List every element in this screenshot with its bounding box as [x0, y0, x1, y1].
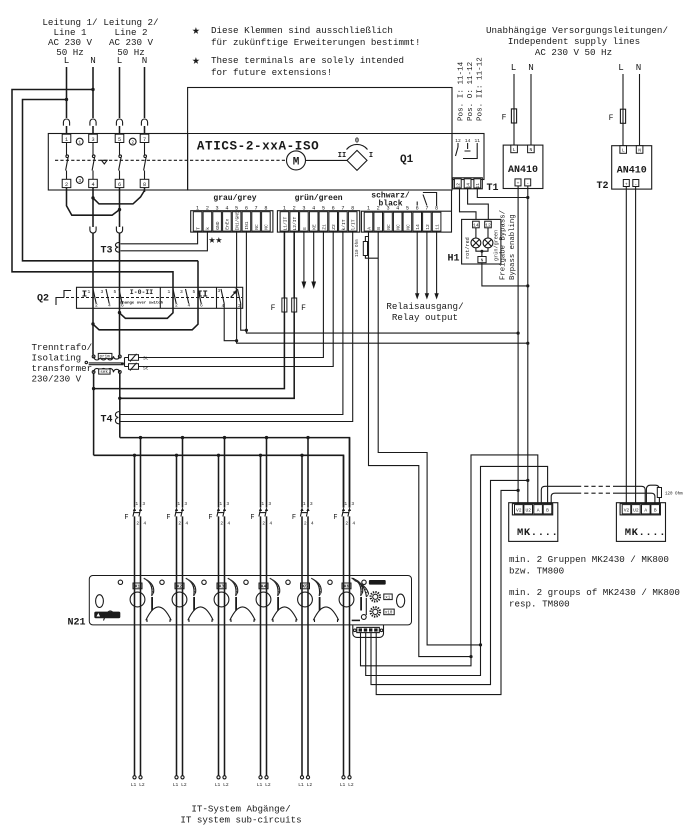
- wire bus A to MK2 A: [615, 486, 645, 503]
- wire sub-circuit 3 through K3: [219, 575, 225, 776]
- svg-text:AC 230 V 50 Hz: AC 230 V 50 Hz: [535, 47, 612, 58]
- wire gruen k/IT to T4: [121, 231, 343, 414]
- node circled 1: [76, 138, 83, 145]
- svg-text:L1: L1: [131, 782, 137, 788]
- svg-text:E: E: [302, 227, 308, 230]
- contact blade pole 7: [144, 143, 147, 180]
- wire T2 N: [639, 74, 641, 146]
- svg-text:1: 1: [219, 501, 222, 507]
- svg-text:4: 4: [225, 206, 228, 212]
- svg-text:6: 6: [332, 206, 335, 212]
- wire sek right down with tap: [119, 373, 121, 437]
- Q2 group1 contacts: [88, 289, 125, 309]
- svg-text:H1: H1: [448, 254, 460, 265]
- N21 mounting slot: [96, 595, 104, 608]
- svg-text:3: 3: [268, 501, 271, 507]
- svg-text:rot/red: rot/red: [465, 237, 471, 259]
- connector plug N feed: [116, 227, 122, 234]
- wire N21 pin2 riser: [366, 466, 548, 675]
- svg-text:1: 1: [168, 289, 171, 295]
- wire N21 pin4 riser: [376, 490, 518, 694]
- op-amp Q1 outline (ATICS unit): [188, 88, 452, 191]
- connector plug L feed: [90, 227, 96, 234]
- wire L1 socket to terminal 1: [66, 126, 68, 135]
- svg-text:min. 2 groups of MK2430 / MK80: min. 2 groups of MK2430 / MK800: [509, 587, 680, 598]
- svg-text:prim.: prim.: [100, 355, 113, 360]
- svg-text:für zukünftige Erweiterungen b: für zukünftige Erweiterungen bestimmt!: [211, 37, 421, 48]
- svg-text:3: 3: [184, 501, 187, 507]
- svg-text:NC: NC: [254, 224, 260, 230]
- wire grau6 to plus rail: [246, 231, 518, 333]
- wire grau2 to T3: [121, 231, 208, 251]
- wire MK1 A to bus hook: [541, 486, 577, 503]
- svg-text:L: L: [511, 62, 517, 73]
- fuse F L2/IT: [292, 298, 306, 313]
- svg-text:bzw. TM800: bzw. TM800: [509, 566, 564, 577]
- EDS display area: [352, 578, 405, 620]
- svg-text:4: 4: [396, 206, 399, 212]
- transformer TR1 secondary: [92, 368, 121, 375]
- wire N1 socket to terminal 3: [92, 126, 94, 135]
- svg-text:L: L: [117, 55, 123, 66]
- svg-text:4: 4: [108, 303, 111, 309]
- terminal 5: [115, 134, 124, 143]
- svg-text:Freigabe Bypass/: Freigabe Bypass/: [500, 210, 508, 280]
- svg-text:1: 1: [65, 137, 68, 143]
- wire lamps to N terminal: [476, 248, 488, 257]
- svg-text:I: I: [82, 290, 87, 300]
- breaker F2: [166, 438, 188, 576]
- current transformer K4: [256, 578, 280, 610]
- wire M to selector: [306, 159, 348, 161]
- svg-text:12: 12: [456, 183, 462, 189]
- wire Q2 pole3 to transformer prim right: [119, 287, 121, 355]
- breaker F6: [333, 438, 355, 576]
- current transformer K2: [172, 578, 196, 610]
- bundle Q2 group2 out1 to pole3 wire: [120, 308, 174, 318]
- wire plug to Q2 pole3: [119, 233, 121, 287]
- wire schwarz 11 relay output arrow: [434, 231, 438, 299]
- node Q2 manual actuator: [56, 291, 71, 306]
- bridge terminal 4 to terminal 8: [93, 188, 145, 204]
- svg-text:2: 2: [178, 521, 181, 527]
- svg-text:K5: K5: [302, 585, 308, 590]
- Q2 group3 aux contacts: [218, 287, 242, 309]
- svg-text:sek.: sek.: [100, 370, 110, 375]
- svg-text:T4: T4: [101, 415, 113, 426]
- svg-text:8: 8: [435, 206, 438, 212]
- svg-text:3: 3: [216, 206, 219, 212]
- svg-text:L2: L2: [139, 782, 145, 788]
- wire T2 L with fuse: [622, 74, 624, 146]
- svg-text:120 Ohm: 120 Ohm: [665, 492, 683, 497]
- resistor R term 110 Ohm on A B: [355, 237, 378, 259]
- svg-text:N: N: [528, 62, 534, 73]
- node sub-circuit 6 terminals L1 L2: [340, 776, 354, 788]
- svg-text:K3: K3: [219, 585, 225, 590]
- svg-text:L2: L2: [223, 782, 229, 788]
- wire sub-circuit 5 through K5: [302, 575, 308, 776]
- svg-text:Pos. O: 11-12: Pos. O: 11-12: [467, 61, 475, 121]
- svg-text:5: 5: [193, 289, 196, 295]
- terminal 4: [89, 179, 98, 188]
- svg-text:230/230 V: 230/230 V: [32, 374, 82, 385]
- svg-text:IT system sub-circuits: IT system sub-circuits: [180, 815, 301, 826]
- svg-text:2: 2: [262, 521, 265, 527]
- svg-text:Bypass enabling: Bypass enabling: [509, 214, 517, 280]
- wire L2 down: [119, 67, 121, 118]
- wire Q2 aux col1 to grau5: [224, 304, 236, 341]
- svg-text:AN410: AN410: [508, 165, 538, 176]
- svg-text:F: F: [166, 514, 170, 522]
- switch Q2 changeover box: [77, 287, 243, 308]
- relay contact drawing: [456, 143, 478, 159]
- svg-text:k: k: [205, 227, 211, 230]
- svg-text:NC: NC: [405, 224, 411, 230]
- wire Q2 aux col2 to grau6: [241, 304, 247, 331]
- transformer core: [89, 362, 124, 364]
- wire gruen L2/IT down through fuse: [120, 231, 294, 398]
- svg-text:K1: K1: [135, 585, 141, 590]
- svg-text:★: ★: [192, 53, 200, 68]
- svg-text:F: F: [292, 514, 296, 522]
- wire schwarz 14 relay output arrow: [415, 231, 419, 299]
- connector socket L2: [116, 119, 122, 126]
- svg-text:F: F: [502, 114, 507, 123]
- svg-text:3: 3: [142, 501, 145, 507]
- svg-text:L1: L1: [340, 782, 346, 788]
- svg-text:transformer: transformer: [32, 363, 93, 374]
- N21 Bender logo: [94, 612, 120, 619]
- monitor MK2 box: [616, 503, 666, 542]
- terminal 3: [89, 134, 98, 143]
- terminal strip grau outline: [191, 211, 273, 232]
- wire T2 minus down to MK2: [635, 187, 637, 504]
- svg-text:L1: L1: [257, 782, 263, 788]
- svg-text:2: 2: [220, 521, 223, 527]
- svg-text:Pos. II: 11-12: Pos. II: 11-12: [477, 57, 485, 121]
- breaker F4: [250, 438, 272, 576]
- svg-text:Q1: Q1: [400, 154, 414, 166]
- svg-text:L: L: [513, 147, 516, 153]
- wire L2 socket to terminal 5: [119, 126, 121, 135]
- terminal 2: [62, 179, 71, 188]
- node circled 2: [129, 138, 136, 145]
- svg-text:3: 3: [180, 289, 183, 295]
- svg-text:A: A: [367, 227, 373, 230]
- svg-text:4: 4: [188, 303, 191, 309]
- svg-text:1: 1: [177, 501, 180, 507]
- connector socket L1: [63, 119, 69, 126]
- svg-text:L: L: [64, 55, 70, 66]
- wire gruen Z1 to St1: [139, 231, 324, 357]
- svg-text:U2: U2: [633, 508, 639, 514]
- svg-text:Relaisausgang/: Relaisausgang/: [386, 301, 463, 312]
- svg-text:change over switch: change over switch: [120, 301, 164, 306]
- wire sub-circuit 6 through K6: [344, 575, 350, 776]
- svg-text:F: F: [333, 514, 337, 522]
- svg-text:T1: T1: [487, 183, 499, 194]
- svg-text:MK....: MK....: [625, 527, 666, 539]
- wire N21 pin3 riser: [371, 480, 528, 684]
- wire from terminal 2 down: [67, 188, 120, 216]
- svg-text:4: 4: [312, 206, 315, 212]
- connector socket N2: [141, 119, 147, 126]
- svg-text:3: 3: [101, 289, 104, 295]
- svg-text:IN1/GN5: IN1/GN5: [234, 211, 240, 231]
- svg-text:2: 2: [175, 303, 178, 309]
- wire N2 socket to terminal 7: [144, 126, 146, 135]
- svg-text:AN410: AN410: [617, 166, 647, 177]
- svg-text:L1/IT: L1/IT: [282, 216, 288, 230]
- svg-text:3: 3: [302, 206, 305, 212]
- svg-text:1: 1: [78, 140, 81, 146]
- fuse F T1: [502, 109, 517, 123]
- wire sek left down with tap: [93, 373, 95, 455]
- svg-text:2: 2: [206, 206, 209, 212]
- transformer TR1 primary: [92, 353, 121, 360]
- svg-text:4: 4: [269, 521, 272, 527]
- wire gruen l/IT to T4: [121, 231, 353, 421]
- wire gruen E with arrow: [302, 231, 307, 289]
- svg-text:14: 14: [415, 224, 421, 230]
- node sub-circuit 2 terminals L1 L2: [173, 776, 187, 788]
- svg-text:5: 5: [235, 206, 238, 212]
- node sub-circuit 4 terminals L1 L2: [257, 776, 271, 788]
- svg-text:2: 2: [65, 182, 68, 188]
- wire schwarz A down: [369, 231, 472, 656]
- resistor R 120 Ohm termination: [646, 485, 683, 503]
- svg-text:★★: ★★: [209, 234, 223, 247]
- svg-text:B: B: [376, 227, 382, 230]
- bus L sub-distribution: [120, 438, 350, 508]
- svg-text:6: 6: [245, 206, 248, 212]
- svg-text:2: 2: [136, 521, 139, 527]
- svg-text:x1: x1: [385, 597, 391, 601]
- wire relay 14 to H1: [468, 189, 489, 220]
- svg-text:F: F: [609, 114, 614, 123]
- svg-text:4: 4: [311, 521, 314, 527]
- relay K1 aux box on Q1: [452, 134, 484, 180]
- svg-text:F: F: [250, 514, 254, 522]
- svg-text:K6: K6: [344, 585, 350, 590]
- svg-text:B: B: [654, 508, 657, 514]
- svg-text:grün/green: grün/green: [295, 194, 343, 203]
- svg-text:T: T: [195, 227, 201, 230]
- lamp red: [471, 228, 481, 248]
- svg-text:6: 6: [121, 303, 124, 309]
- svg-text:GND: GND: [215, 221, 221, 230]
- wire relay 12 to H1: [460, 189, 477, 220]
- switch selector diamond: [347, 150, 367, 170]
- svg-text:110 Ohm: 110 Ohm: [355, 239, 360, 257]
- wire gruen KE with arrow: [311, 231, 316, 289]
- wire plug to Q2 pole1: [92, 233, 94, 287]
- svg-text:St: St: [143, 356, 149, 362]
- contact blade pole 1: [66, 143, 69, 180]
- terminal strip gruen outline: [277, 211, 359, 232]
- node selector arc: [347, 144, 368, 149]
- svg-text:1: 1: [283, 206, 286, 212]
- label Pos rotated: [458, 57, 485, 121]
- connector T3: [101, 242, 120, 256]
- svg-text:4: 4: [352, 521, 355, 527]
- svg-text:N: N: [530, 147, 533, 153]
- svg-text:U2: U2: [525, 508, 531, 514]
- svg-text:NC: NC: [386, 224, 392, 230]
- wire mechanical dashed link: [55, 159, 287, 161]
- svg-text:I-0-II: I-0-II: [130, 289, 154, 296]
- node sub-circuit 1 terminals L1 L2: [131, 776, 145, 788]
- bus N sub-distribution: [94, 455, 344, 507]
- terminal 8: [140, 179, 149, 188]
- svg-text:8: 8: [143, 182, 146, 188]
- svg-text:x10: x10: [385, 612, 393, 616]
- wire T1 minus down to MK1: [527, 186, 529, 504]
- svg-text:F: F: [208, 514, 212, 522]
- Q2 group2 contacts: [168, 289, 204, 309]
- wire T1 L with fuse: [513, 74, 515, 145]
- svg-text:NC: NC: [264, 224, 270, 230]
- svg-text:8: 8: [264, 206, 267, 212]
- lamp green: [483, 228, 493, 248]
- svg-text:Independent supply lines: Independent supply lines: [508, 36, 640, 47]
- note star 1 (German): [192, 23, 421, 48]
- svg-text:2: 2: [377, 206, 380, 212]
- node Leitung 2 label: [103, 17, 158, 58]
- wire sub-circuit 1 through K1: [135, 575, 141, 776]
- svg-text:4: 4: [227, 521, 230, 527]
- svg-text:N: N: [142, 55, 148, 66]
- junction rail B / L1: [65, 98, 68, 101]
- svg-text:0: 0: [355, 138, 359, 146]
- svg-text:6: 6: [200, 303, 203, 309]
- svg-text:1: 1: [303, 501, 306, 507]
- svg-text:Unabhängige Versorgungsleitung: Unabhängige Versorgungsleitungen/: [486, 25, 668, 36]
- terminals gruen 1-8: [280, 206, 357, 231]
- wire sub-circuit 4 through K4: [261, 575, 267, 776]
- svg-text:11: 11: [435, 224, 441, 230]
- wire Q2 pole1 to transformer prim left: [92, 287, 94, 355]
- svg-text:A: A: [537, 508, 540, 514]
- svg-text:F: F: [124, 514, 128, 522]
- svg-text:resp. TM800: resp. TM800: [509, 599, 570, 610]
- svg-text:N: N: [636, 62, 642, 73]
- svg-text:★: ★: [192, 23, 200, 38]
- contact blade pole 5: [119, 143, 122, 180]
- svg-text:3: 3: [91, 137, 94, 143]
- connector T4: [101, 412, 120, 426]
- svg-text:1: 1: [344, 501, 347, 507]
- terminal N of H1: [478, 257, 486, 264]
- breaker F1: [124, 438, 146, 576]
- svg-text:II: II: [338, 152, 346, 160]
- fuse F L1/IT: [271, 298, 287, 313]
- power supply T1 AN410: [503, 145, 543, 188]
- svg-text:A: A: [644, 508, 647, 514]
- junction rail A / N1: [91, 88, 94, 91]
- svg-text:4: 4: [185, 521, 188, 527]
- svg-text:EnEx: EnEx: [225, 219, 231, 230]
- wire rail B from L1 to left: [23, 100, 199, 288]
- wire N21 pin1 riser: [361, 455, 538, 666]
- svg-text:2: 2: [293, 206, 296, 212]
- svg-text:14: 14: [465, 183, 471, 189]
- label min 2 Gruppen: [509, 554, 680, 610]
- svg-text:L: L: [622, 148, 625, 154]
- wire from terminal 6 down: [119, 188, 121, 227]
- svg-text:Z1: Z1: [321, 224, 327, 230]
- svg-text:1: 1: [196, 206, 199, 212]
- svg-text:ATICS-2-xxA-ISO: ATICS-2-xxA-ISO: [197, 140, 319, 154]
- svg-text:1: 1: [367, 206, 370, 212]
- switch S1 bypass changeover box: [48, 134, 187, 191]
- svg-text:L2: L2: [181, 782, 187, 788]
- wire T2 plus down to MK2: [625, 187, 627, 504]
- current transformer K5: [298, 578, 322, 610]
- monitor MK1 box: [509, 503, 559, 542]
- note star 2 (English): [192, 53, 404, 78]
- svg-text:F: F: [271, 304, 276, 313]
- svg-text:IN1: IN1: [244, 221, 250, 230]
- wire rail A through Q2: [172, 287, 174, 308]
- wire bus A dashed: [577, 485, 615, 487]
- svg-text:5: 5: [406, 206, 409, 212]
- svg-text:2: 2: [345, 521, 348, 527]
- svg-text:3: 3: [218, 288, 221, 294]
- wire gruen Z2 to St2: [139, 231, 334, 366]
- current transformer K3: [214, 578, 238, 610]
- svg-text:KE: KE: [312, 224, 318, 230]
- svg-text:L1: L1: [173, 782, 179, 788]
- node coupling triangle: [102, 160, 108, 164]
- motor M1: [287, 151, 306, 170]
- svg-text:1: 1: [88, 289, 91, 295]
- node sub-circuit 5 terminals L1 L2: [298, 776, 312, 788]
- svg-text:Diese Klemmen sind ausschließl: Diese Klemmen sind ausschließlich: [211, 25, 393, 36]
- svg-text:11: 11: [475, 183, 481, 189]
- wire N2 down: [144, 67, 146, 118]
- junction dots bus L: [139, 436, 310, 439]
- svg-text:3: 3: [310, 501, 313, 507]
- wire grau1 to T3: [121, 231, 198, 244]
- surge arrester St1: [121, 354, 149, 367]
- terminal 1: [62, 134, 71, 143]
- svg-text:5: 5: [118, 137, 121, 143]
- wire T1 N: [530, 74, 532, 145]
- svg-text:L1: L1: [298, 782, 304, 788]
- monitor N21 module outline: [89, 576, 411, 625]
- terminals schwarz 1-8: [364, 206, 441, 231]
- svg-text:EDS460: EDS460: [370, 582, 383, 586]
- svg-text:50 Hz: 50 Hz: [56, 47, 84, 58]
- terminal 7: [140, 134, 149, 143]
- svg-text:for future extensions!: for future extensions!: [211, 67, 332, 78]
- fuse F T2: [609, 109, 626, 123]
- svg-text:Relay output: Relay output: [392, 312, 458, 323]
- node Leitung 1 label: [42, 17, 97, 58]
- svg-text:Z2: Z2: [331, 224, 337, 230]
- svg-text:L: L: [618, 62, 624, 73]
- terminal strip schwarz outline: [361, 211, 451, 232]
- svg-text:grau/grey: grau/grey: [213, 194, 256, 203]
- svg-text:1: 1: [135, 501, 138, 507]
- svg-text:F: F: [301, 304, 306, 313]
- svg-text:2: 2: [304, 521, 307, 527]
- svg-text:7: 7: [341, 206, 344, 212]
- wire Q1 edge to schwarz outline: [451, 190, 453, 211]
- svg-text:4: 4: [91, 182, 94, 188]
